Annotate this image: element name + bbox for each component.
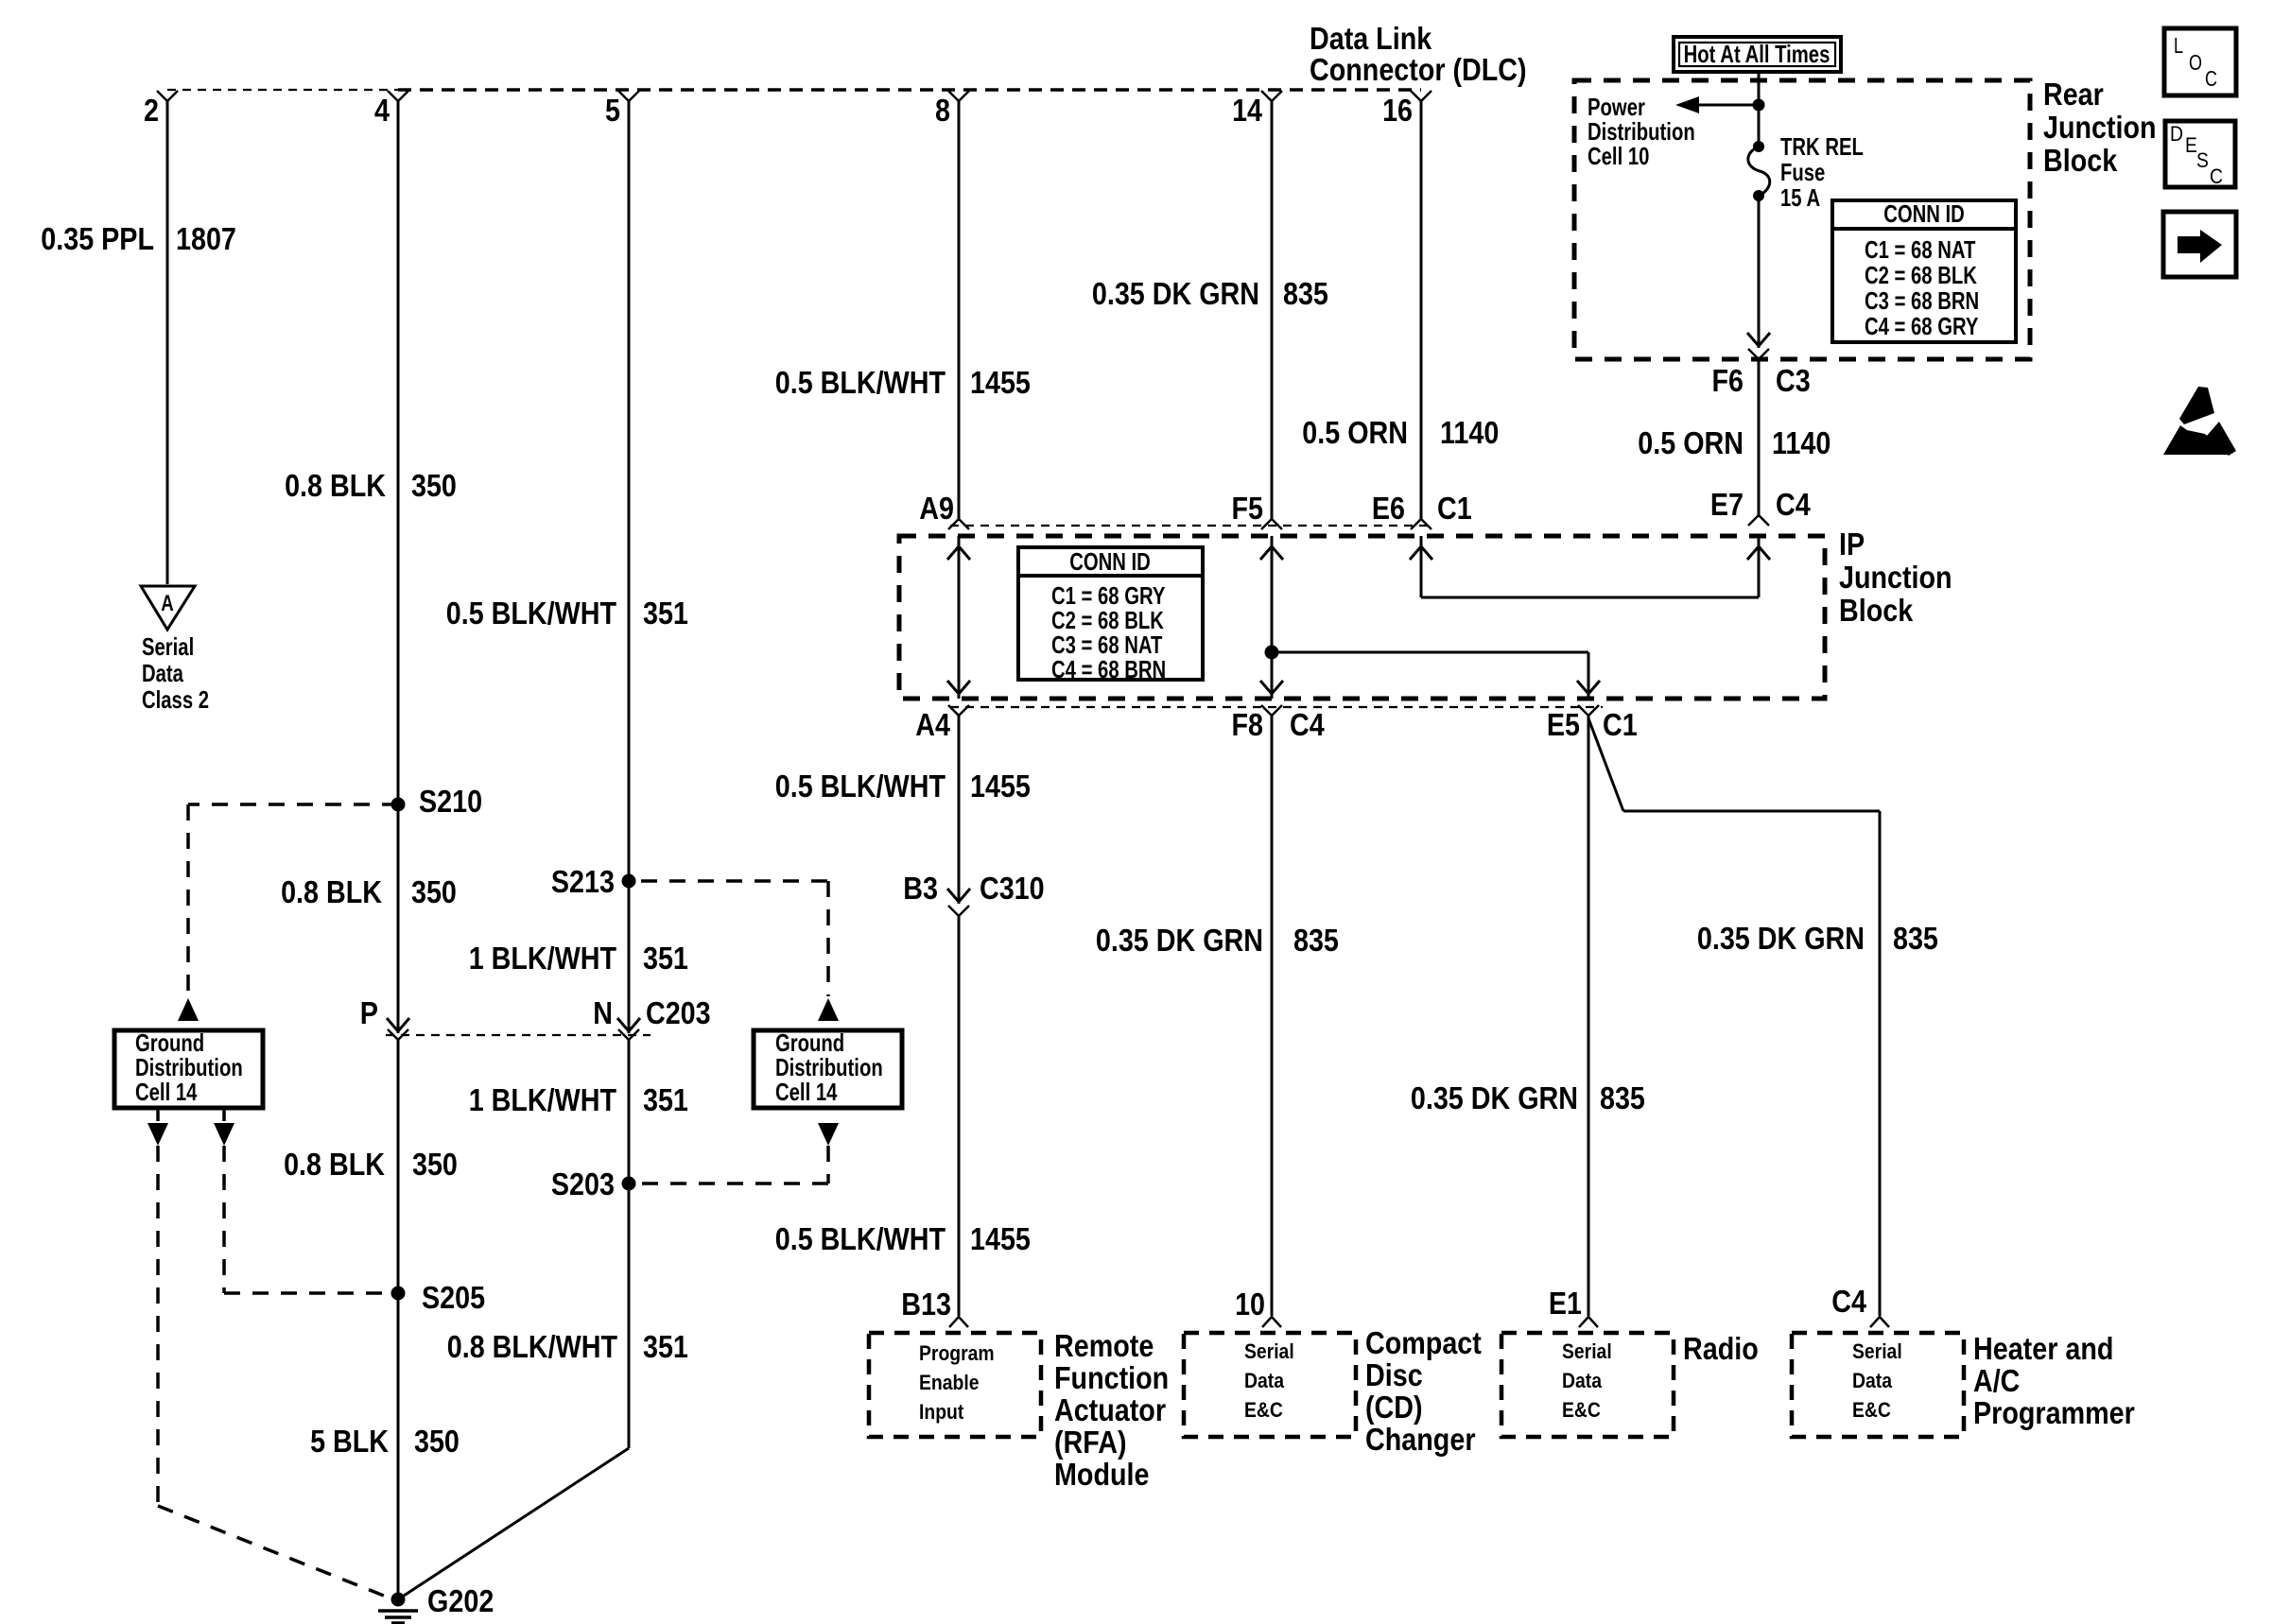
- svg-text:Disc: Disc: [1365, 1357, 1423, 1392]
- svg-text:P: P: [360, 995, 378, 1030]
- svg-text:C4: C4: [1290, 707, 1325, 742]
- svg-text:Compact: Compact: [1365, 1325, 1482, 1360]
- svg-text:1455: 1455: [970, 365, 1031, 400]
- svg-text:L: L: [2174, 33, 2183, 58]
- svg-text:10: 10: [1235, 1287, 1265, 1322]
- svg-text:Remote: Remote: [1054, 1328, 1154, 1363]
- svg-text:Input: Input: [919, 1400, 964, 1424]
- svg-text:Module: Module: [1054, 1457, 1150, 1492]
- svg-text:E6: E6: [1372, 491, 1405, 526]
- svg-text:E: E: [2185, 133, 2197, 157]
- svg-text:Data: Data: [142, 659, 183, 687]
- svg-text:S210: S210: [419, 784, 482, 819]
- svg-text:Radio: Radio: [1683, 1331, 1759, 1366]
- svg-text:351: 351: [643, 1082, 688, 1117]
- svg-text:A9: A9: [919, 491, 954, 526]
- svg-text:8: 8: [935, 93, 950, 128]
- svg-text:0.5 BLK/WHT: 0.5 BLK/WHT: [775, 1221, 946, 1256]
- svg-text:Cell 10: Cell 10: [1588, 142, 1649, 170]
- svg-text:E&C: E&C: [1244, 1398, 1283, 1422]
- svg-text:S213: S213: [551, 864, 615, 899]
- svg-text:F5: F5: [1232, 491, 1264, 526]
- svg-text:1455: 1455: [970, 1221, 1031, 1256]
- svg-text:Junction: Junction: [1839, 560, 1952, 595]
- svg-text:1140: 1140: [1772, 425, 1831, 460]
- svg-text:0.35 DK GRN: 0.35 DK GRN: [1697, 921, 1865, 956]
- svg-text:Heater and: Heater and: [1973, 1331, 2113, 1366]
- svg-text:Programmer: Programmer: [1973, 1395, 2135, 1430]
- svg-text:C3: C3: [1776, 363, 1811, 398]
- svg-text:Block: Block: [2043, 143, 2118, 178]
- svg-text:0.35 DK GRN: 0.35 DK GRN: [1411, 1080, 1578, 1115]
- svg-text:(RFA): (RFA): [1054, 1425, 1127, 1460]
- svg-text:1455: 1455: [970, 769, 1031, 803]
- svg-text:Class 2: Class 2: [142, 685, 209, 714]
- svg-text:Serial: Serial: [1562, 1339, 1612, 1363]
- svg-text:16: 16: [1382, 93, 1413, 128]
- svg-text:S205: S205: [422, 1280, 485, 1315]
- svg-text:0.5 BLK/WHT: 0.5 BLK/WHT: [775, 769, 946, 803]
- svg-text:Serial: Serial: [1244, 1339, 1294, 1363]
- svg-text:CONN ID: CONN ID: [1883, 199, 1965, 228]
- svg-text:TRK REL: TRK REL: [1780, 132, 1864, 161]
- svg-text:0.8 BLK/WHT: 0.8 BLK/WHT: [447, 1329, 617, 1364]
- svg-text:C1: C1: [1437, 491, 1472, 526]
- svg-text:351: 351: [643, 1329, 688, 1364]
- svg-text:Changer: Changer: [1365, 1422, 1476, 1457]
- svg-text:A/C: A/C: [1973, 1363, 2020, 1398]
- svg-text:Cell 14: Cell 14: [775, 1078, 838, 1106]
- svg-text:835: 835: [1600, 1080, 1645, 1115]
- svg-text:5: 5: [605, 93, 620, 128]
- svg-text:1 BLK/WHT: 1 BLK/WHT: [469, 1082, 616, 1117]
- svg-text:C310: C310: [980, 871, 1045, 906]
- svg-text:C203: C203: [646, 995, 711, 1030]
- svg-text:Function: Function: [1054, 1360, 1169, 1395]
- svg-text:Connector (DLC): Connector (DLC): [1310, 52, 1527, 87]
- svg-text:Cell 14: Cell 14: [135, 1078, 198, 1106]
- svg-text:Data Link: Data Link: [1310, 21, 1432, 56]
- svg-text:C4: C4: [1831, 1284, 1866, 1319]
- svg-text:2: 2: [144, 93, 159, 128]
- svg-text:Actuator: Actuator: [1054, 1392, 1166, 1427]
- svg-text:0.5 ORN: 0.5 ORN: [1302, 415, 1408, 450]
- svg-text:Enable: Enable: [919, 1371, 980, 1394]
- svg-text:IP: IP: [1839, 527, 1865, 561]
- svg-text:5 BLK: 5 BLK: [310, 1424, 389, 1459]
- svg-text:Data: Data: [1852, 1369, 1893, 1392]
- svg-text:C: C: [2205, 66, 2217, 91]
- svg-text:Fuse: Fuse: [1780, 158, 1825, 186]
- svg-text:B3: B3: [903, 871, 938, 906]
- svg-text:0.8 BLK: 0.8 BLK: [281, 874, 382, 909]
- svg-text:350: 350: [414, 1424, 460, 1459]
- svg-text:S: S: [2196, 148, 2209, 172]
- svg-text:14: 14: [1232, 93, 1262, 128]
- svg-text:C4 = 68 BRN: C4 = 68 BRN: [1051, 655, 1166, 683]
- svg-text:0.5 ORN: 0.5 ORN: [1638, 425, 1744, 460]
- svg-text:(CD): (CD): [1365, 1390, 1423, 1425]
- svg-text:C1: C1: [1603, 707, 1638, 742]
- svg-text:F8: F8: [1232, 707, 1264, 742]
- svg-text:835: 835: [1893, 921, 1938, 956]
- svg-text:E&C: E&C: [1562, 1398, 1601, 1422]
- svg-text:0.35 DK GRN: 0.35 DK GRN: [1096, 923, 1263, 958]
- svg-text:Data: Data: [1244, 1369, 1285, 1392]
- svg-text:N: N: [593, 995, 613, 1030]
- svg-text:835: 835: [1283, 276, 1328, 311]
- svg-text:Serial: Serial: [142, 632, 194, 661]
- svg-text:E1: E1: [1549, 1286, 1582, 1321]
- svg-text:CONN ID: CONN ID: [1069, 547, 1151, 576]
- svg-text:1 BLK/WHT: 1 BLK/WHT: [469, 941, 616, 976]
- svg-text:F6: F6: [1712, 363, 1744, 398]
- svg-text:Serial: Serial: [1852, 1339, 1902, 1363]
- svg-text:1140: 1140: [1440, 415, 1499, 450]
- svg-text:C2 = 68 BLK: C2 = 68 BLK: [1865, 261, 1977, 289]
- svg-text:C3 = 68 BRN: C3 = 68 BRN: [1865, 286, 1979, 315]
- svg-text:E5: E5: [1547, 707, 1580, 742]
- svg-text:A: A: [161, 591, 174, 616]
- svg-text:0.5 BLK/WHT: 0.5 BLK/WHT: [446, 596, 616, 631]
- svg-text:G202: G202: [427, 1583, 494, 1618]
- svg-text:E7: E7: [1710, 487, 1744, 522]
- svg-text:835: 835: [1293, 923, 1339, 958]
- svg-text:351: 351: [643, 941, 688, 976]
- svg-text:O: O: [2189, 50, 2202, 75]
- svg-text:350: 350: [411, 468, 457, 503]
- svg-text:0.8 BLK: 0.8 BLK: [284, 1147, 385, 1182]
- svg-text:C1 = 68 NAT: C1 = 68 NAT: [1865, 235, 1975, 264]
- svg-text:Program: Program: [919, 1341, 995, 1365]
- svg-text:Rear: Rear: [2043, 77, 2104, 112]
- svg-text:15 A: 15 A: [1780, 183, 1820, 212]
- svg-text:350: 350: [411, 874, 457, 909]
- svg-text:C: C: [2210, 164, 2223, 188]
- svg-text:A4: A4: [915, 707, 950, 742]
- svg-text:Data: Data: [1562, 1369, 1603, 1392]
- svg-text:Block: Block: [1839, 593, 1914, 628]
- svg-text:0.35 PPL: 0.35 PPL: [41, 221, 154, 256]
- svg-text:D: D: [2170, 122, 2183, 146]
- svg-text:S203: S203: [551, 1166, 615, 1201]
- svg-text:C4 = 68 GRY: C4 = 68 GRY: [1865, 312, 1978, 340]
- svg-text:1807: 1807: [176, 221, 236, 256]
- svg-text:Junction: Junction: [2043, 110, 2157, 145]
- svg-text:4: 4: [374, 93, 390, 128]
- svg-text:C4: C4: [1776, 487, 1811, 522]
- svg-text:E&C: E&C: [1852, 1398, 1891, 1422]
- svg-text:0.8 BLK: 0.8 BLK: [285, 468, 386, 503]
- svg-text:351: 351: [643, 596, 688, 631]
- svg-text:0.35 DK GRN: 0.35 DK GRN: [1092, 276, 1259, 311]
- svg-text:350: 350: [412, 1147, 458, 1182]
- svg-text:B13: B13: [901, 1287, 951, 1322]
- svg-text:Hot At All Times: Hot At All Times: [1684, 40, 1831, 68]
- svg-text:0.5 BLK/WHT: 0.5 BLK/WHT: [775, 365, 946, 400]
